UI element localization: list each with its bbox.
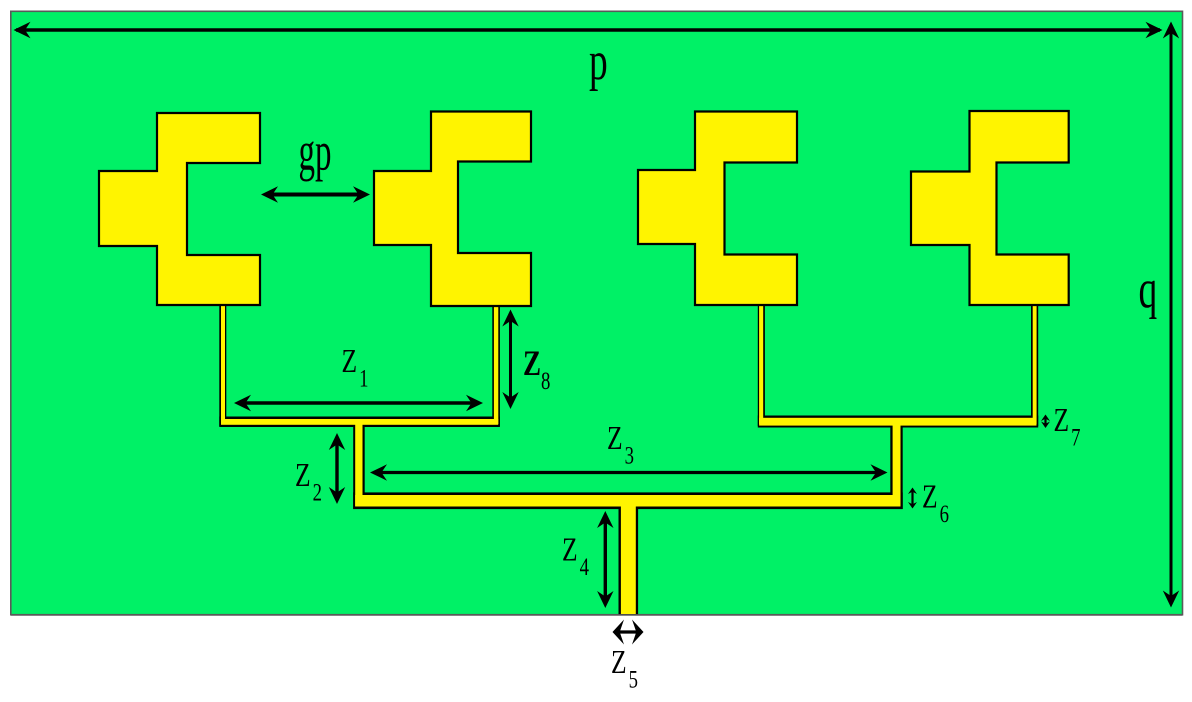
svg-text:p: p: [589, 32, 608, 93]
patch antenna 1: [99, 113, 260, 305]
label Z1: [342, 341, 369, 392]
svg-text:Z: Z: [922, 477, 938, 515]
wire: left bar Z1: [221, 419, 498, 425]
feed network yellow cores: [221, 300, 1037, 614]
label Z7: [1054, 400, 1081, 451]
wire: left drop Z2 outline: [353, 420, 365, 509]
svg-text:gp: gp: [299, 121, 332, 182]
dimension arrow Z1: [234, 395, 483, 411]
svg-text:Z: Z: [562, 530, 578, 568]
wire: bottom stub: [621, 502, 636, 614]
wire: patch4 feed vertical outline: [1031, 300, 1038, 426]
wire: bottom stub outline: [619, 500, 639, 616]
label Z6: [922, 477, 949, 528]
wire: patch2 feed vertical: [494, 300, 498, 424]
dimension arrow p: [14, 22, 1163, 38]
wire: right drop outline: [890, 420, 902, 509]
label Z4: [562, 530, 589, 581]
svg-text:q: q: [1139, 260, 1158, 321]
wire: patch4 feed vertical: [1033, 300, 1037, 424]
feed network black outlines: [219, 300, 1038, 616]
wire: main trunk: [355, 495, 900, 507]
dimension arrow Z3: [370, 464, 888, 480]
svg-text:2: 2: [313, 478, 322, 506]
patch antenna 3: [638, 112, 797, 306]
svg-text:Z: Z: [295, 455, 311, 493]
wire: left drop Z2: [355, 420, 362, 506]
patch antenna 2: [374, 112, 531, 307]
bottom border line over stub: [11, 614, 1183, 616]
dimension arrow q: [1163, 22, 1179, 608]
label Z8: [523, 343, 550, 394]
dimension arrow Z2: [329, 433, 345, 504]
svg-text:7: 7: [1071, 423, 1080, 451]
svg-text:5: 5: [629, 665, 638, 693]
dimension arrow Z8: [502, 310, 518, 410]
svg-text:Z: Z: [523, 343, 541, 383]
dimension arrow Z6 tiny: [908, 488, 917, 509]
label Z3: [607, 418, 634, 469]
wire: left bar Z1 outline: [219, 417, 500, 428]
dimension arrow Z4: [597, 511, 613, 608]
dimension arrow Z7 tiny: [1041, 415, 1050, 429]
label Z5: [611, 642, 638, 693]
svg-text:Z: Z: [611, 642, 627, 680]
patches: [99, 111, 1069, 306]
wire: patch1 feed vertical: [221, 300, 225, 424]
svg-text:8: 8: [541, 366, 550, 394]
dimension arrow gp: [261, 186, 370, 202]
svg-text:Z: Z: [607, 418, 623, 456]
wire: right drop: [893, 420, 901, 506]
svg-text:4: 4: [580, 552, 589, 580]
wire: main trunk outline: [353, 492, 903, 509]
wire: patch3 feed vertical: [759, 300, 763, 424]
patch antenna 4: [911, 111, 1069, 305]
wire: patch3 feed vertical outline: [758, 300, 765, 426]
wire: patch1 feed vertical outline: [219, 300, 226, 426]
dimension arrow Z5: [613, 620, 644, 645]
label Z2: [295, 455, 322, 506]
svg-text:Z: Z: [342, 341, 358, 379]
svg-text:3: 3: [625, 441, 634, 469]
wire: patch2 feed vertical outline: [492, 300, 500, 426]
wire: right bar outline: [758, 416, 1038, 428]
wire: right bar: [759, 418, 1036, 426]
svg-text:1: 1: [359, 364, 368, 392]
svg-text:6: 6: [940, 499, 949, 527]
svg-text:Z: Z: [1054, 400, 1070, 438]
